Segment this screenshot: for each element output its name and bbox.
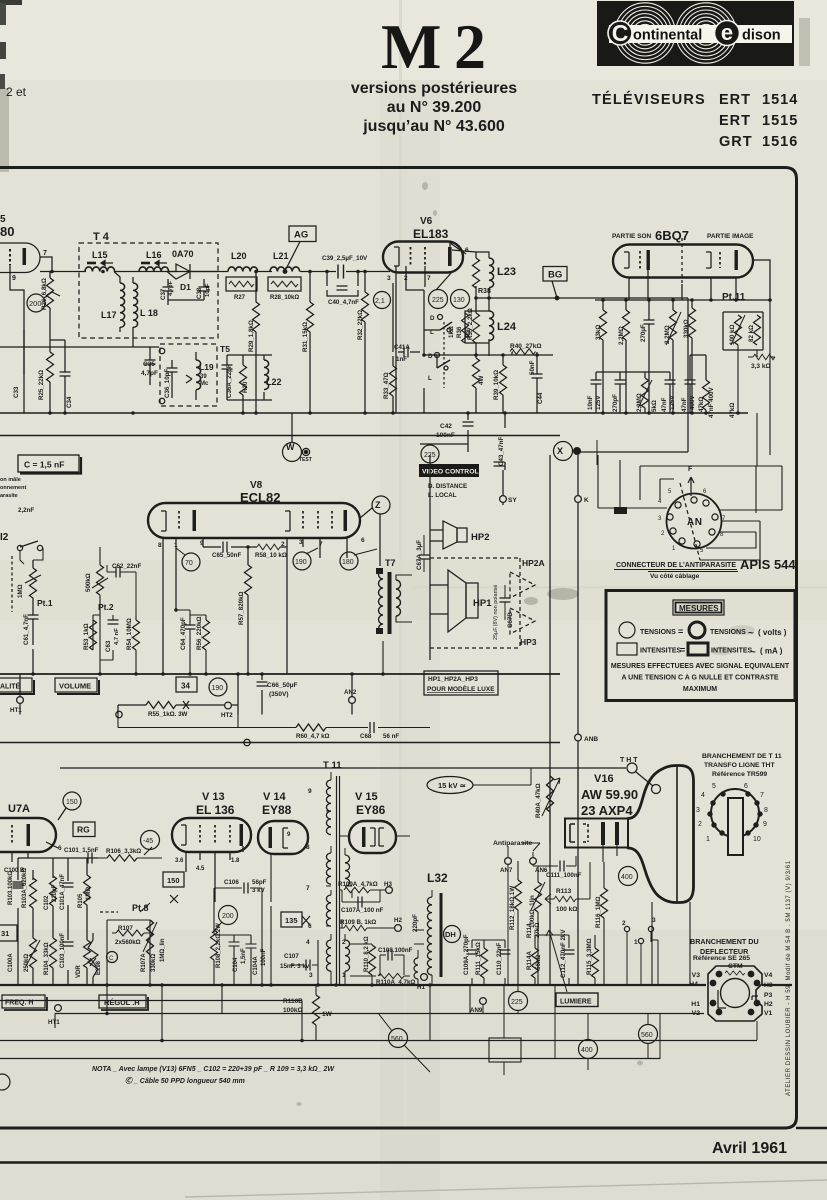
svg-text:6: 6: [361, 537, 365, 544]
svg-text:D: D: [428, 353, 433, 360]
svg-text:HP2A: HP2A: [522, 558, 545, 568]
svg-text:6: 6: [465, 247, 469, 254]
svg-text:F: F: [688, 466, 693, 473]
svg-text:C103_100nF: C103_100nF: [60, 933, 66, 968]
svg-text:6: 6: [744, 783, 748, 790]
svg-text:RÉGUL .H: RÉGUL .H: [104, 998, 140, 1007]
svg-text:HP3: HP3: [520, 637, 537, 647]
svg-text:2: 2: [404, 275, 408, 282]
svg-text:2: 2: [342, 939, 346, 946]
svg-text:HP1_HP2A_HP3: HP1_HP2A_HP3: [428, 676, 478, 683]
svg-text:225: 225: [511, 999, 523, 1006]
svg-text:R40_27kΩ: R40_27kΩ: [510, 343, 542, 350]
svg-text:8: 8: [764, 807, 768, 814]
svg-text:150: 150: [167, 876, 180, 885]
svg-text:C110_22nF: C110_22nF: [496, 942, 503, 975]
svg-text:47kΩ: 47kΩ: [698, 397, 705, 412]
svg-text:HT1: HT1: [48, 1019, 60, 1026]
svg-text:4,7pF: 4,7pF: [141, 370, 158, 377]
svg-text:NOTA _ Avec lampe (V13) 6FN5: NOTA _ Avec lampe (V13) 6FN5 _ C102 = 22…: [92, 1066, 335, 1073]
svg-text:3: 3: [696, 807, 700, 814]
svg-text:C36_10pF: C36_10pF: [164, 369, 171, 398]
svg-text:C42: C42: [440, 423, 452, 430]
svg-text:R115_3,3MΩ: R115_3,3MΩ: [586, 938, 593, 975]
svg-text:8: 8: [306, 844, 310, 851]
svg-text:C107: C107: [284, 953, 299, 960]
svg-text:25µF.(8V) non polarisé: 25µF.(8V) non polarisé: [493, 585, 499, 640]
svg-text:56pF: 56pF: [252, 879, 267, 886]
svg-text:1: 1: [706, 836, 710, 843]
svg-text:C36A_22pF: C36A_22pF: [226, 364, 233, 398]
svg-text:CTM: CTM: [728, 963, 743, 970]
svg-text:C109A_270pF: C109A_270pF: [463, 934, 470, 975]
svg-text:6: 6: [58, 845, 62, 852]
svg-text:27kΩ: 27kΩ: [534, 923, 541, 938]
svg-text:C40_4,7nF: C40_4,7nF: [328, 299, 359, 306]
svg-text:0A70: 0A70: [172, 249, 194, 259]
svg-text:C62_22nF: C62_22nF: [112, 563, 141, 570]
svg-text:Vu côté câblage: Vu côté câblage: [650, 573, 700, 580]
svg-text:C61_4,7nF: C61_4,7nF: [23, 614, 30, 645]
svg-text:10: 10: [753, 836, 761, 843]
svg-text:47kΩ: 47kΩ: [729, 403, 736, 418]
svg-text:6: 6: [308, 923, 312, 930]
svg-text:4: 4: [306, 939, 310, 946]
svg-text:on mâle: on mâle: [0, 477, 21, 483]
svg-text:2: 2: [698, 821, 702, 828]
svg-text:ontinental: ontinental: [633, 28, 702, 44]
svg-text:e: e: [721, 20, 733, 45]
svg-text:C65_50nF: C65_50nF: [212, 552, 241, 559]
svg-text:1516: 1516: [762, 134, 798, 150]
svg-text:C35: C35: [143, 361, 155, 368]
svg-text:R114A: R114A: [526, 951, 533, 970]
svg-text:8: 8: [158, 542, 162, 549]
svg-text:AG: AG: [294, 230, 308, 241]
svg-text:C34: C34: [66, 396, 73, 408]
svg-text:C107A_100 nF: C107A_100 nF: [341, 907, 384, 914]
svg-text:R110_8,2 kΩ: R110_8,2 kΩ: [364, 936, 370, 972]
svg-text:180: 180: [342, 559, 354, 566]
svg-text:400: 400: [581, 1047, 593, 1054]
svg-text:H2: H2: [764, 1001, 773, 1008]
svg-text:H4: H4: [689, 981, 698, 988]
svg-text:SY: SY: [508, 497, 517, 504]
svg-text:R27: R27: [234, 295, 246, 301]
svg-text:L32: L32: [427, 871, 448, 885]
svg-text:MESURES EFFECTUEES AVEC S: MESURES EFFECTUEES AVEC SIGNAL EQUIVALEN…: [611, 663, 790, 670]
svg-text:arasite: arasite: [0, 493, 18, 499]
svg-text:LUMIERE: LUMIERE: [560, 999, 592, 1006]
svg-text:R107: R107: [118, 925, 133, 932]
svg-text:VOLUME: VOLUME: [59, 682, 91, 691]
svg-text:270pF: 270pF: [612, 394, 619, 412]
svg-text:L: L: [428, 375, 432, 382]
svg-text:R25_22kΩ: R25_22kΩ: [38, 370, 45, 400]
svg-text:C104A: C104A: [253, 956, 259, 975]
svg-text:R109A_4,7kΩ: R109A_4,7kΩ: [338, 881, 378, 888]
svg-text:R28_10kΩ: R28_10kΩ: [270, 295, 299, 301]
svg-text:ERT: ERT: [719, 92, 751, 108]
svg-text:E298: E298: [96, 960, 102, 975]
svg-text:H3: H3: [384, 881, 392, 888]
svg-text:dison: dison: [742, 28, 781, 44]
svg-text:R111_15kΩ: R111_15kΩ: [475, 942, 482, 975]
svg-text:9: 9: [763, 821, 767, 828]
svg-text:400: 400: [621, 874, 633, 881]
svg-text:47nF: 47nF: [661, 397, 668, 412]
svg-text:C = 1,5 nF: C = 1,5 nF: [24, 460, 64, 470]
svg-text:2 et: 2 et: [6, 85, 27, 99]
svg-text:34: 34: [181, 682, 190, 691]
svg-text:330kΩ: 330kΩ: [683, 319, 690, 338]
svg-text:2: 2: [622, 920, 626, 927]
svg-text:56kΩ: 56kΩ: [535, 955, 542, 970]
svg-text:L21: L21: [273, 251, 289, 261]
svg-text:PARTIE SON: PARTIE SON: [612, 233, 652, 240]
svg-text:270µF: 270µF: [640, 324, 647, 342]
svg-text:D. DISTANCE: D. DISTANCE: [428, 483, 467, 490]
svg-text:150: 150: [66, 799, 78, 806]
svg-text:R104_33kΩ: R104_33kΩ: [44, 942, 50, 975]
svg-text:L17: L17: [101, 310, 117, 320]
svg-text:HT2: HT2: [221, 712, 233, 719]
svg-text:V3: V3: [692, 972, 701, 979]
svg-text:2x560kΩ: 2x560kΩ: [115, 939, 141, 946]
svg-text:R37: R37: [465, 326, 472, 338]
svg-text:23 AXP4: 23 AXP4: [581, 803, 633, 818]
svg-text:R103.100kΩ: R103.100kΩ: [8, 871, 14, 905]
svg-text:C101_1,5nF: C101_1,5nF: [64, 847, 99, 854]
svg-text:P3: P3: [764, 992, 773, 999]
svg-text:POUR MODÈLE LUXE: POUR MODÈLE LUXE: [427, 684, 495, 693]
svg-text:4.5: 4.5: [196, 866, 205, 872]
svg-text:C64_470pF: C64_470pF: [180, 617, 187, 650]
svg-text:X: X: [557, 446, 563, 456]
svg-text:4,7 nF: 4,7 nF: [114, 628, 120, 645]
svg-text:V2: V2: [692, 1010, 701, 1017]
svg-text:~: ~: [748, 628, 754, 639]
svg-text:3: 3: [309, 972, 313, 979]
svg-text:33kΩ: 33kΩ: [595, 325, 602, 340]
svg-text:56 nF: 56 nF: [383, 733, 399, 740]
svg-text:R55_1kΩ. 3W: R55_1kΩ. 3W: [148, 711, 188, 718]
svg-text:C37: C37: [160, 288, 167, 300]
svg-text:ALITÉ: ALITÉ: [0, 682, 21, 691]
svg-text:R31_15kΩ: R31_15kΩ: [302, 322, 309, 352]
svg-text:Z: Z: [375, 500, 381, 510]
svg-text:50nF: 50nF: [529, 360, 536, 375]
svg-text:2: 2: [281, 541, 285, 548]
svg-text:2: 2: [454, 11, 486, 82]
svg-text:9: 9: [200, 540, 204, 547]
svg-text:R108_2,2kΩ.2W: R108_2,2kΩ.2W: [216, 923, 222, 968]
svg-text:PARTIE IMAGE: PARTIE IMAGE: [707, 233, 754, 240]
svg-text:3.6: 3.6: [175, 858, 184, 864]
svg-text:7: 7: [306, 885, 310, 892]
svg-text:1: 1: [174, 542, 178, 549]
svg-text:T 11: T 11: [323, 760, 342, 771]
svg-text:R60_4,7 kΩ: R60_4,7 kΩ: [296, 733, 330, 740]
svg-text:BRANCHEMENT DU: BRANCHEMENT DU: [690, 937, 759, 946]
svg-text:C112_470nF 2kV: C112_470nF 2kV: [560, 929, 567, 978]
svg-text:C63: C63: [105, 640, 112, 652]
svg-text:ANB: ANB: [584, 736, 598, 743]
svg-text:9: 9: [12, 275, 16, 282]
svg-text:C100A: C100A: [8, 953, 14, 972]
svg-text:190: 190: [295, 559, 307, 566]
svg-text:RG: RG: [77, 825, 90, 835]
svg-text:FREQ. H: FREQ. H: [5, 1000, 33, 1007]
svg-text:C: C: [612, 20, 629, 46]
svg-text:CONNECTEUR DE L’ANTIPARASITE: CONNECTEUR DE L’ANTIPARASITE: [616, 562, 736, 569]
svg-text:1MΩ_lin: 1MΩ_lin: [160, 938, 166, 962]
svg-text:225: 225: [432, 297, 444, 304]
svg-text:5kΩ: 5kΩ: [651, 400, 658, 412]
svg-text:onnement: onnement: [0, 485, 26, 491]
svg-text:1515: 1515: [762, 113, 798, 129]
svg-text:~: ~: [750, 647, 756, 658]
svg-text:L22: L22: [266, 377, 282, 387]
svg-text:Référence TR599: Référence TR599: [712, 771, 767, 778]
svg-text:R105: R105: [78, 893, 84, 908]
svg-text:80: 80: [0, 224, 14, 239]
svg-text:220µF: 220µF: [52, 885, 58, 902]
svg-text:R38: R38: [478, 288, 491, 295]
svg-text:VDR: VDR: [76, 965, 82, 978]
svg-text:L24: L24: [497, 321, 517, 333]
svg-text:=: =: [680, 645, 685, 655]
svg-text:R116_1MΩ: R116_1MΩ: [595, 897, 602, 928]
svg-text:Pt.2: Pt.2: [98, 602, 114, 612]
svg-text:D1: D1: [180, 282, 191, 292]
svg-text:=: =: [678, 627, 683, 637]
svg-text:4: 4: [701, 792, 705, 799]
svg-text:47nF 400V: 47nF 400V: [708, 387, 715, 418]
svg-text:jusqu’au N° 43.600: jusqu’au N° 43.600: [362, 118, 505, 135]
svg-text:( volts ): ( volts ): [758, 628, 787, 637]
svg-text:L16: L16: [146, 250, 162, 260]
svg-text:Mc: Mc: [200, 381, 209, 387]
svg-text:BRANCHEMENT DE T 11: BRANCHEMENT DE T 11: [702, 753, 782, 760]
svg-text:MAXIMUM: MAXIMUM: [683, 686, 717, 693]
svg-text:HP1: HP1: [473, 598, 492, 609]
svg-text:TEST: TEST: [299, 457, 312, 463]
svg-text:DH: DH: [445, 930, 456, 939]
svg-text:ERT: ERT: [719, 113, 751, 129]
svg-text:EL183: EL183: [413, 227, 449, 241]
svg-text:HP2: HP2: [471, 532, 489, 543]
svg-text:5: 5: [712, 783, 716, 790]
svg-text:H3: H3: [764, 982, 773, 989]
svg-text:3: 3: [387, 275, 391, 282]
svg-text:-45: -45: [143, 838, 153, 845]
svg-text:V1: V1: [764, 1010, 773, 1017]
svg-text:K: K: [584, 497, 589, 504]
svg-text:EL 136: EL 136: [196, 803, 235, 817]
svg-text:330kΩ: 330kΩ: [151, 954, 157, 972]
svg-text:70: 70: [185, 560, 193, 567]
svg-text:39: 39: [200, 374, 207, 380]
svg-text:INTENSITES: INTENSITES: [711, 648, 753, 655]
svg-text:4,7pF: 4,7pF: [168, 280, 174, 296]
svg-text:R106_3,3kΩ: R106_3,3kΩ: [106, 848, 141, 855]
svg-text:100nF: 100nF: [436, 432, 455, 439]
svg-text:AN7: AN7: [500, 867, 513, 874]
svg-text:H1: H1: [691, 1001, 700, 1008]
svg-text:1W: 1W: [322, 1011, 333, 1018]
svg-text:L: L: [430, 329, 434, 336]
svg-text:C108.100nF: C108.100nF: [378, 947, 413, 954]
svg-text:C66_50µF: C66_50µF: [267, 682, 298, 689]
svg-text:7: 7: [760, 792, 764, 799]
svg-text:1kΩ: 1kΩ: [448, 326, 455, 338]
svg-text:130: 130: [453, 297, 465, 304]
svg-text:R110A_4,7kΩ: R110A_4,7kΩ: [376, 979, 415, 986]
svg-text:TENSIONS: TENSIONS: [640, 629, 676, 636]
svg-text:125V: 125V: [669, 395, 676, 410]
svg-text:R29_1,8kΩ: R29_1,8kΩ: [248, 320, 255, 352]
svg-text:(350V): (350V): [269, 691, 289, 698]
svg-text:15 kV ≃: 15 kV ≃: [438, 781, 467, 790]
svg-text:400V: 400V: [689, 395, 696, 410]
svg-text:R109 B. 1kΩ: R109 B. 1kΩ: [340, 919, 376, 926]
svg-text:R53_1kΩ: R53_1kΩ: [83, 623, 90, 650]
svg-text:R57_820kΩ: R57_820kΩ: [238, 591, 245, 625]
svg-text:200: 200: [29, 299, 42, 308]
svg-text:3 kV: 3 kV: [252, 887, 266, 894]
svg-text:MESURES: MESURES: [679, 604, 719, 613]
svg-text:82 kΩ: 82 kΩ: [748, 325, 755, 342]
svg-text:3,3 kΩ: 3,3 kΩ: [751, 363, 771, 370]
svg-text:ECL82: ECL82: [240, 490, 280, 505]
svg-text:47nF: 47nF: [681, 397, 688, 412]
svg-text:C111_100nF: C111_100nF: [546, 872, 582, 879]
svg-text:L. LOCAL: L. LOCAL: [428, 492, 457, 499]
svg-text:TENSIONS: TENSIONS: [710, 629, 746, 636]
svg-text:R107A: R107A: [141, 953, 147, 972]
svg-text:M: M: [381, 11, 441, 82]
svg-text:AN: AN: [687, 517, 702, 528]
svg-text:C67B: C67B: [507, 612, 514, 628]
svg-text:R112_18kΩ.1W: R112_18kΩ.1W: [509, 886, 516, 930]
svg-text:C106: C106: [224, 879, 239, 886]
svg-text:C: C: [109, 956, 114, 962]
svg-text:1nF: 1nF: [396, 356, 407, 363]
svg-text:10nF: 10nF: [587, 395, 594, 410]
svg-text:AN2: AN2: [344, 689, 357, 696]
svg-text:TÉLÉVISEURS: TÉLÉVISEURS: [592, 91, 706, 108]
svg-text:V 13: V 13: [202, 791, 225, 803]
svg-text:C43_47nF: C43_47nF: [498, 437, 505, 466]
svg-text:C100 B: C100 B: [4, 868, 25, 874]
svg-text:Avril 1961: Avril 1961: [712, 1140, 787, 1157]
svg-text:2,2nF: 2,2nF: [18, 507, 34, 514]
svg-text:1514: 1514: [762, 92, 798, 108]
svg-text:V 15: V 15: [355, 791, 378, 803]
svg-text:EY86: EY86: [356, 803, 386, 817]
svg-text:T7: T7: [385, 558, 396, 568]
svg-text:H1: H1: [417, 984, 425, 991]
svg-text:R40A_47kΩ: R40A_47kΩ: [535, 783, 542, 818]
svg-text:Antiparasite: Antiparasite: [493, 840, 533, 847]
svg-text:2,1: 2,1: [375, 298, 385, 305]
svg-text:GRT: GRT: [719, 134, 753, 150]
svg-text:L 18: L 18: [140, 308, 158, 318]
svg-text:T H T: T H T: [620, 757, 638, 764]
svg-text:500kΩ: 500kΩ: [85, 573, 92, 592]
svg-text:4W: 4W: [478, 376, 485, 385]
svg-text:INTENSITES: INTENSITES: [640, 648, 682, 655]
svg-text:9: 9: [308, 788, 312, 795]
svg-text:R33_47Ω: R33_47Ω: [383, 372, 390, 399]
svg-text:L15: L15: [92, 250, 108, 260]
svg-text:R54_10MΩ: R54_10MΩ: [126, 618, 133, 650]
svg-text:AN9: AN9: [470, 1007, 483, 1014]
svg-text:Pt.1: Pt.1: [37, 598, 53, 608]
svg-text:APIS 544: APIS 544: [740, 557, 796, 572]
svg-text:Pt.8: Pt.8: [132, 903, 149, 913]
svg-text:2,2MΩ: 2,2MΩ: [636, 393, 643, 412]
svg-text:3: 3: [652, 917, 656, 924]
svg-text:V16: V16: [594, 773, 614, 785]
svg-text:au N° 39.200: au N° 39.200: [387, 99, 482, 116]
svg-text:1: 1: [634, 939, 638, 946]
svg-text:31: 31: [1, 929, 9, 938]
svg-text:AW 59.90: AW 59.90: [581, 787, 638, 802]
svg-text:L19: L19: [199, 362, 214, 372]
svg-text:V4: V4: [764, 972, 773, 979]
svg-text:100nF: 100nF: [261, 948, 267, 966]
svg-text:HT1: HT1: [10, 707, 22, 714]
svg-text:7: 7: [319, 541, 323, 548]
svg-text:R36: R36: [456, 326, 463, 338]
svg-text:C44: C44: [537, 392, 544, 404]
svg-text:W: W: [286, 442, 295, 452]
svg-text:L23: L23: [497, 266, 516, 278]
svg-text:V 14: V 14: [263, 791, 287, 803]
svg-text:H2: H2: [394, 917, 402, 924]
svg-text:R113: R113: [556, 888, 572, 895]
svg-text:220pF: 220pF: [412, 914, 419, 932]
svg-text:R58_10 kΩ: R58_10 kΩ: [255, 552, 287, 559]
svg-text:R114: R114: [526, 923, 533, 938]
svg-text:125V: 125V: [595, 395, 602, 410]
svg-text:A UNE TENSION C A G NUL: A UNE TENSION C A G NULLE ET CONTRASTE: [621, 675, 778, 682]
svg-text:T 4: T 4: [93, 231, 110, 243]
svg-text:Ⓒ _ Câble 50 PPD longueur 5: Ⓒ _ Câble 50 PPD longueur 540 mm: [125, 1076, 245, 1085]
svg-text:1.8: 1.8: [231, 858, 240, 864]
svg-text:3: 3: [299, 539, 303, 546]
svg-text:( mA ): ( mA ): [760, 647, 783, 656]
svg-text:EY88: EY88: [262, 803, 292, 817]
svg-text:1MΩ: 1MΩ: [86, 887, 92, 900]
svg-text:7: 7: [427, 275, 431, 282]
svg-text:BG: BG: [548, 270, 562, 281]
svg-text:C33: C33: [13, 386, 20, 398]
svg-text:V6: V6: [420, 216, 433, 227]
svg-text:TRANSFO LIGNE THT: TRANSFO LIGNE THT: [704, 762, 775, 769]
svg-text:100kΩ: 100kΩ: [283, 1007, 303, 1014]
svg-text:I2: I2: [0, 532, 9, 543]
svg-text:Référence SE 265: Référence SE 265: [693, 955, 750, 962]
svg-text:1MΩ: 1MΩ: [17, 584, 24, 598]
svg-text:U7A: U7A: [8, 803, 30, 815]
svg-text:560: 560: [391, 1036, 403, 1043]
svg-text:1,5nF: 1,5nF: [241, 948, 247, 964]
svg-text:190: 190: [212, 685, 224, 692]
svg-text:560: 560: [641, 1032, 653, 1039]
